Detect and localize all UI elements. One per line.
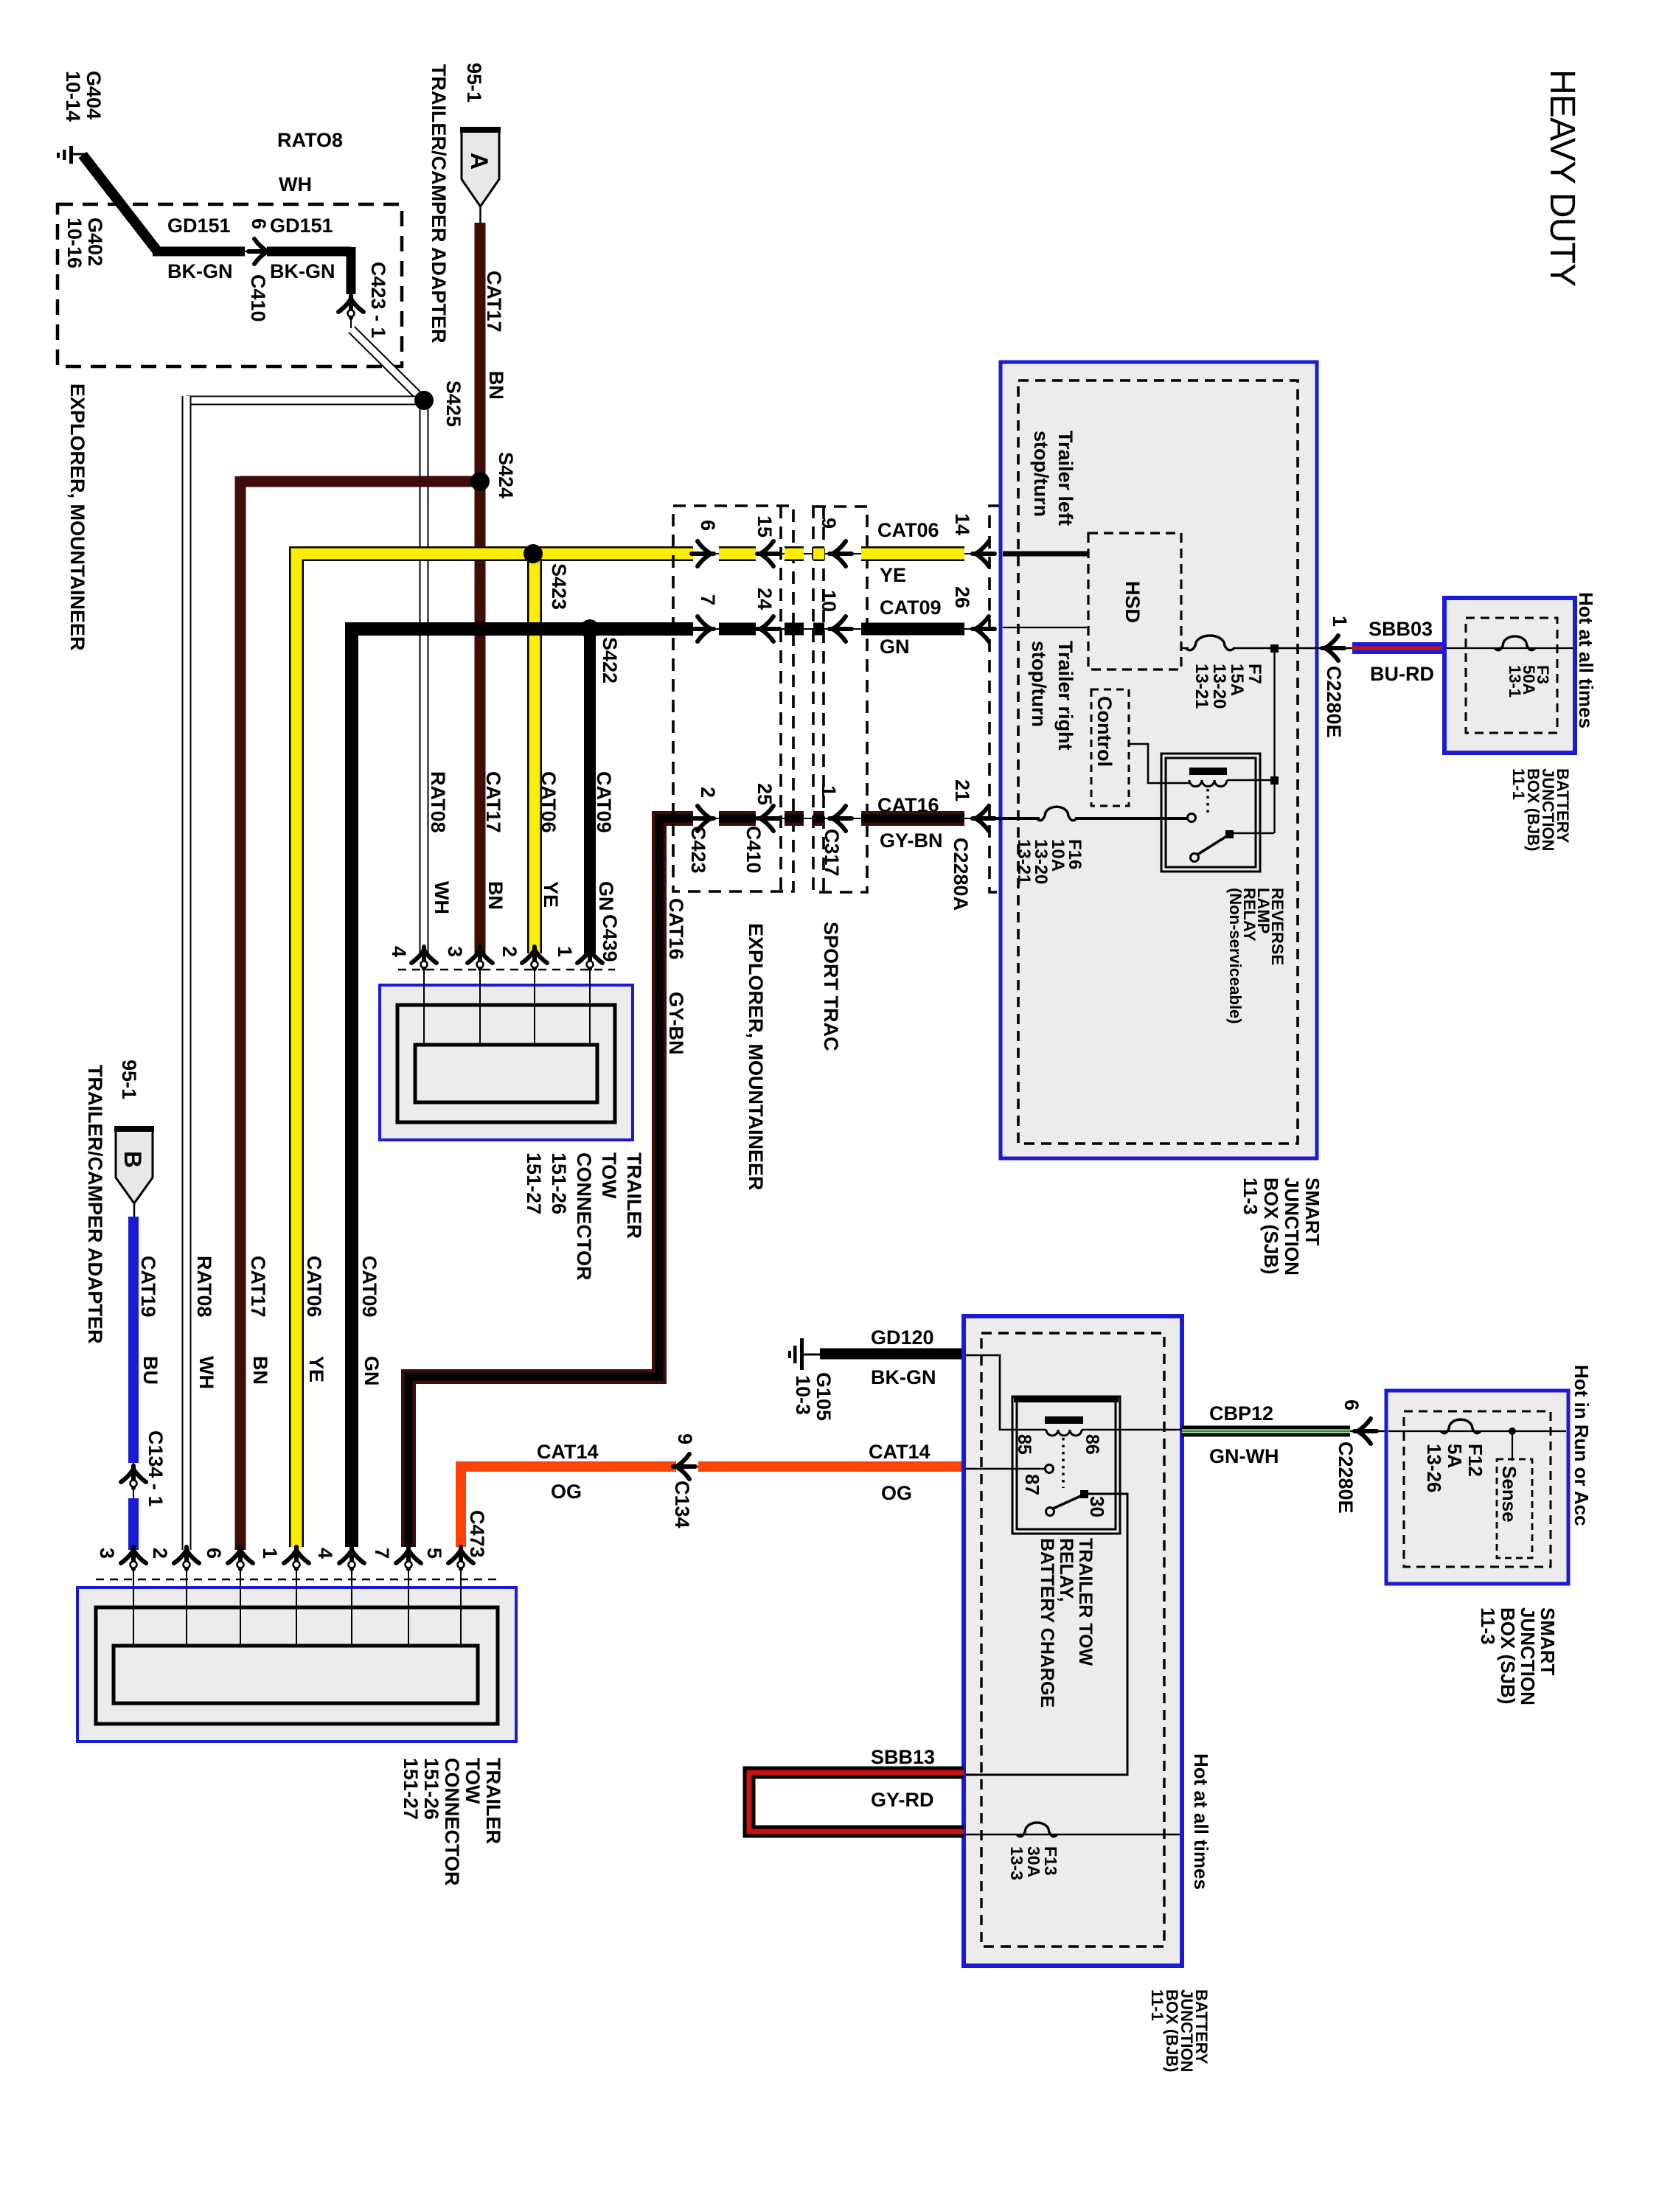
- wire through BJB top: [1447, 647, 1573, 649]
- wire GD120 BK-GN: [820, 1349, 964, 1360]
- relay lower contact: [1191, 854, 1199, 862]
- svg-text:RAT08: RAT08: [193, 1256, 215, 1318]
- label F3 50A 13-1: [1506, 665, 1552, 698]
- CAT09 GN row dash 1103: [813, 623, 824, 636]
- wire trailer right stop/turn inside SJB: [1003, 627, 1088, 628]
- trailer tow connector box (bottom): [77, 1587, 516, 1742]
- svg-text:GY-RD: GY-RD: [871, 1789, 934, 1811]
- svg-text:CONNECTOR: CONNECTOR: [573, 1152, 595, 1281]
- CAT09 GN row arrow into C317: [829, 616, 852, 641]
- svg-text:7: 7: [697, 594, 719, 605]
- svg-text:WH: WH: [431, 881, 453, 914]
- connector A pentagon (trailer/camper adapter): [460, 127, 501, 206]
- bottom connector pin 3 terminal arrow: [121, 1547, 146, 1569]
- connector C134 inline arrow on CAT14: [673, 1454, 698, 1479]
- svg-text:GN: GN: [880, 636, 910, 658]
- svg-text:GY-BN: GY-BN: [880, 829, 943, 852]
- bottom connector pin 5 terminal arrow: [448, 1547, 473, 1569]
- relay dotted actuator line: [1206, 789, 1208, 814]
- svg-text:13-20: 13-20: [1209, 664, 1229, 709]
- label G105 10-3: [792, 1372, 835, 1421]
- CAT09 GN row arrow into C2280A: [973, 616, 995, 641]
- svg-text:CAT09: CAT09: [593, 771, 615, 833]
- svg-text:2: 2: [498, 946, 521, 957]
- svg-text:10-14: 10-14: [62, 71, 84, 122]
- CAT16 GY-BN row dash 1103: [813, 811, 824, 826]
- label REVERSE LAMP RELAY (Non-serviceable): [1226, 888, 1287, 1024]
- CAT16 GY-BN row arrow into C410: [757, 806, 779, 831]
- CAT06 YE row arrow into C2280A: [973, 541, 995, 566]
- control line to relay coil: [1129, 744, 1189, 783]
- relay 30 lower contact: [1046, 1508, 1054, 1516]
- svg-text:10-3: 10-3: [792, 1375, 814, 1415]
- svg-text:JUNCTION: JUNCTION: [1281, 1178, 1303, 1276]
- svg-text:BK-GN: BK-GN: [270, 260, 335, 282]
- svg-text:YE: YE: [305, 1356, 327, 1382]
- svg-text:Trailer left: Trailer left: [1054, 431, 1077, 526]
- relay arm contact square: [1225, 830, 1234, 838]
- svg-text:CONNECTOR: CONNECTOR: [441, 1758, 463, 1886]
- CAT16 GY-BN row arrow into C317: [829, 806, 852, 831]
- label F7 15A 13-20 13-21: [1192, 664, 1265, 709]
- C439 pin 1 lead: [589, 968, 591, 1046]
- CAT06 YE row dash 1103: [813, 546, 824, 561]
- battery charge relay dotted actuator: [1062, 1438, 1064, 1488]
- svg-text:GD120: GD120: [871, 1326, 934, 1349]
- label TRAILER TOW RELAY, BATTERY CHARGE: [1037, 1538, 1096, 1708]
- svg-text:Control: Control: [1093, 696, 1116, 767]
- fuse F12: [1441, 1419, 1481, 1433]
- relay coil windings: [1189, 780, 1227, 787]
- svg-text:C410: C410: [247, 274, 269, 322]
- label TRAILER TOW CONNECTOR 151-26 151-27 (bottom): [400, 1758, 504, 1886]
- svg-text:1: 1: [554, 946, 576, 957]
- wire into F16: [988, 817, 1040, 820]
- battery junction box BJB (bottom): [964, 1316, 1182, 1966]
- svg-text:BK-GN: BK-GN: [871, 1366, 936, 1388]
- svg-text:stop/turn: stop/turn: [1030, 431, 1052, 517]
- svg-text:1: 1: [259, 1548, 281, 1559]
- svg-text:151-26: 151-26: [420, 1758, 442, 1820]
- svg-text:C2280A: C2280A: [950, 838, 972, 911]
- svg-text:10-16: 10-16: [63, 218, 86, 268]
- label Trailer right stop/turn: [1028, 641, 1077, 751]
- bottom connector pin 4 lead: [351, 1568, 352, 1647]
- svg-text:SBB13: SBB13: [871, 1746, 935, 1768]
- svg-text:EXPLORER, MOUNTAINEER: EXPLORER, MOUNTAINEER: [745, 923, 767, 1191]
- wire GD151 BK-GN vertical drop to C423-1: [347, 247, 356, 294]
- CAT09 GN row arrow into C410: [757, 616, 779, 641]
- svg-text:C134: C134: [671, 1481, 693, 1528]
- wire from F7 junction down to relay: [1273, 648, 1275, 833]
- CAT16 GY-BN row arrow into C2280A: [973, 806, 995, 831]
- svg-text:4: 4: [388, 946, 410, 957]
- svg-text:9: 9: [674, 1433, 696, 1444]
- C439 pin 2 terminal arrow: [522, 947, 547, 969]
- svg-text:21: 21: [951, 779, 973, 801]
- wire RATO8 WH diagonal from C423-1 to S425: [352, 330, 422, 399]
- svg-text:5A: 5A: [1444, 1444, 1466, 1468]
- lead from A to CAT17: [479, 206, 481, 224]
- svg-text:B: B: [119, 1151, 146, 1168]
- coil to CBP12 line: [1082, 1429, 1183, 1431]
- svg-text:CAT06: CAT06: [303, 1256, 325, 1318]
- svg-text:SBB03: SBB03: [1368, 618, 1433, 640]
- battery charge relay coil windings: [1046, 1430, 1082, 1436]
- label G404 10-14: [62, 71, 105, 122]
- svg-text:F12: F12: [1464, 1444, 1486, 1477]
- CAT09 GN row dash 975: [719, 623, 756, 636]
- dashed connector boundary C2280A: [990, 506, 1001, 892]
- svg-text:F7: F7: [1245, 664, 1265, 684]
- CAT09 GN row dash 1064: [785, 623, 804, 636]
- bottom connector pin 2 lead: [186, 1568, 187, 1647]
- svg-text:BN: BN: [249, 1356, 271, 1385]
- connector B pentagon (trailer/camper adapter): [114, 1126, 154, 1203]
- arrow C2280E pin 6: [1350, 1419, 1388, 1444]
- svg-text:6: 6: [697, 520, 719, 531]
- svg-text:BATTERY CHARGE: BATTERY CHARGE: [1037, 1538, 1057, 1708]
- svg-text:13-21: 13-21: [1192, 664, 1211, 709]
- fuse F7: [1186, 636, 1234, 650]
- relay coil bar: [1189, 768, 1227, 775]
- svg-text:TRAILER: TRAILER: [482, 1758, 504, 1844]
- relay coil to F7 junction line: [1227, 779, 1270, 781]
- svg-text:C2280E: C2280E: [1323, 666, 1345, 738]
- arrow C2280E pin 1: [1322, 636, 1344, 661]
- svg-text:95-1: 95-1: [463, 63, 485, 102]
- wire CAT17 BN vertical: [475, 223, 486, 953]
- svg-text:5: 5: [423, 1548, 445, 1559]
- label TRAILER TOW CONNECTOR 151-26 151-27 (mid): [523, 1152, 645, 1281]
- Sense dashed box: [1497, 1459, 1532, 1558]
- ground G404: [57, 146, 86, 164]
- bottom connector pin 2 terminal arrow: [174, 1547, 199, 1569]
- svg-text:CAT17: CAT17: [247, 1256, 269, 1318]
- svg-text:WH: WH: [279, 173, 312, 195]
- svg-text:HSD: HSD: [1121, 581, 1144, 623]
- svg-text:7: 7: [371, 1548, 393, 1559]
- svg-text:TRAILER: TRAILER: [623, 1152, 645, 1239]
- battery charge relay coil bar: [1045, 1416, 1083, 1424]
- dashed box EXPLORER MOUNTAINEER ground splice: [58, 204, 402, 366]
- CAT09 GN row dash 1168: [861, 623, 964, 636]
- wire CAT09 GN branch from S422 down to C439 pin 1: [584, 629, 596, 953]
- wire RATO8 WH vertical left down to trailer tow connector: [182, 396, 192, 1550]
- bottom connector pin 1 terminal arrow: [284, 1547, 309, 1569]
- wire CAT17 BN horizontal from S424 to left corner: [240, 476, 480, 487]
- junction S425: [414, 391, 434, 410]
- svg-text:13-26: 13-26: [1423, 1444, 1445, 1493]
- label BATTERY JUNCTION BOX (BJB) 11-1 (top): [1509, 768, 1572, 851]
- SBB13 line inside BJB to F13: [966, 1834, 1180, 1835]
- svg-text:86: 86: [1082, 1434, 1102, 1455]
- svg-text:TRAILER/CAMPER ADAPTER: TRAILER/CAMPER ADAPTER: [428, 64, 450, 344]
- BJB top inner dashed box: [1466, 618, 1557, 733]
- trailer tow connector box (C439): [380, 985, 633, 1140]
- svg-text:13-21: 13-21: [1014, 839, 1034, 884]
- svg-text:CAT09: CAT09: [358, 1256, 380, 1318]
- bottom connector pin 1 lead: [296, 1568, 297, 1647]
- svg-text:24: 24: [754, 588, 776, 610]
- svg-text:TOW: TOW: [462, 1758, 484, 1804]
- CAT09 GN row thin line through connectors: [693, 628, 985, 630]
- svg-text:CAT06: CAT06: [538, 771, 560, 833]
- battery charge relay arm: [1053, 1495, 1084, 1509]
- bottom connector pin 4 terminal arrow: [339, 1547, 364, 1569]
- junction S423: [524, 544, 543, 563]
- connector C423-1 terminal arrow: [338, 294, 364, 328]
- dashed connector box C317: [813, 507, 867, 892]
- relay switch arm: [1197, 835, 1229, 855]
- svg-text:1: 1: [818, 785, 840, 796]
- svg-text:CBP12: CBP12: [1209, 1402, 1273, 1425]
- battery junction box BJB (top): [1444, 598, 1575, 753]
- wire CBP12 GN-WH: [1182, 1426, 1350, 1437]
- svg-text:C2280E: C2280E: [1335, 1441, 1357, 1514]
- line to Sense box: [1512, 1431, 1513, 1461]
- svg-text:GN-WH: GN-WH: [1209, 1445, 1279, 1467]
- svg-text:GN: GN: [595, 881, 617, 911]
- battery charge relay box: [1012, 1396, 1120, 1534]
- svg-text:GN: GN: [361, 1356, 383, 1386]
- svg-text:WH: WH: [195, 1356, 218, 1389]
- CAT06 YE row arrow into C410: [757, 541, 779, 566]
- svg-text:C423 - 1: C423 - 1: [367, 262, 389, 338]
- wire CAT09 GN corner: down to connector / right to S422: [352, 629, 693, 1547]
- svg-text:4: 4: [314, 1548, 336, 1559]
- svg-text:2: 2: [149, 1548, 171, 1559]
- connector C410 inline arrow on GD151: [245, 239, 271, 264]
- svg-text:11-3: 11-3: [1477, 1607, 1499, 1645]
- svg-text:CAT16: CAT16: [665, 898, 687, 960]
- fuse F16: [1037, 807, 1077, 821]
- svg-text:C410: C410: [742, 826, 765, 874]
- Control dashed box: [1091, 689, 1129, 806]
- wire F16 to relay contact: [1075, 817, 1187, 820]
- svg-text:CAT16: CAT16: [877, 794, 939, 816]
- svg-text:TOW: TOW: [598, 1152, 620, 1199]
- svg-text:1: 1: [1329, 616, 1351, 627]
- wire GD151 BK-GN diagonal from G404: [83, 155, 157, 251]
- svg-text:BOX (SJB): BOX (SJB): [1497, 1607, 1519, 1704]
- svg-text:CAT14: CAT14: [869, 1441, 931, 1463]
- wire CAT06 YE branch from S423 down to C439 pin 2: [527, 559, 542, 953]
- svg-text:11-1: 11-1: [1148, 1989, 1166, 2021]
- CAT06 YE row dash 975: [719, 546, 756, 561]
- svg-text:CAT17: CAT17: [482, 771, 504, 833]
- svg-text:9: 9: [818, 518, 840, 529]
- svg-text:RELAY,: RELAY,: [1056, 1538, 1077, 1602]
- SJB inner dashed box: [1018, 380, 1298, 1144]
- fuse F3: [1495, 636, 1535, 650]
- svg-text:95-1: 95-1: [118, 1060, 140, 1099]
- wire CAT06 YE corner: down to connector / right to S423: [296, 554, 693, 1547]
- BJB bottom inner dashed box: [981, 1333, 1164, 1947]
- CAT06 YE row arrow into C423: [692, 541, 714, 566]
- svg-text:C439: C439: [599, 914, 621, 962]
- svg-text:(Non-serviceable): (Non-serviceable): [1226, 888, 1245, 1024]
- CAT16 GY-BN row dash 1168: [861, 811, 964, 826]
- bottom connector face dashed line: [96, 1579, 498, 1581]
- label SMART JUNCTION BOX (SJB) 11-3 (top): [1239, 1178, 1324, 1276]
- svg-text:151-27: 151-27: [523, 1152, 545, 1214]
- junction S424: [470, 472, 490, 491]
- svg-text:C134 - 1: C134 - 1: [145, 1430, 167, 1507]
- HSD dashed box: [1088, 533, 1181, 669]
- bottom connector pin 6 lead: [240, 1568, 241, 1647]
- svg-text:C317: C317: [821, 829, 843, 877]
- svg-text:151-26: 151-26: [548, 1152, 570, 1214]
- svg-text:6: 6: [203, 1548, 225, 1559]
- svg-text:14: 14: [951, 513, 973, 535]
- wire CAT19 BU lower segment: [128, 1498, 139, 1550]
- CAT16 GY-BN row dash 1064: [785, 811, 804, 826]
- CAT16 GY-BN row thin line through connectors: [693, 818, 985, 819]
- CAT06 YE row dash 1168: [861, 546, 964, 561]
- wire CAT17 BN vertical left down to trailer tow connector: [235, 476, 246, 1550]
- svg-text:BOX (SJB): BOX (SJB): [1260, 1178, 1282, 1274]
- svg-text:HEAVY DUTY: HEAVY DUTY: [1543, 69, 1582, 286]
- CAT16 GY-BN row dash 975: [719, 811, 756, 826]
- label G402 10-16: [63, 218, 106, 268]
- label F13 30A 13-3: [1007, 1846, 1060, 1880]
- C439 pin 3 lead: [479, 968, 481, 1046]
- smart junction box SJB (bottom) outline: [1386, 1391, 1568, 1584]
- svg-text:C473: C473: [466, 1510, 488, 1558]
- svg-text:CAT09: CAT09: [880, 597, 942, 619]
- svg-text:10: 10: [818, 590, 840, 612]
- svg-text:stop/turn: stop/turn: [1028, 641, 1050, 727]
- relay 30 to SBB13 line: [966, 1494, 1127, 1775]
- GD120 line inside BJB to coil: [966, 1355, 1046, 1430]
- lead from B to CAT19: [133, 1203, 136, 1218]
- C439 pin 3 terminal arrow: [467, 947, 493, 969]
- CAT14 line to 87 contact: [966, 1468, 1046, 1470]
- svg-text:BN: BN: [484, 881, 507, 910]
- svg-text:CAT06: CAT06: [877, 519, 939, 541]
- svg-text:3: 3: [444, 946, 466, 957]
- svg-text:6: 6: [1340, 1399, 1363, 1411]
- label Trailer left stop/turn: [1030, 431, 1077, 526]
- label SMART JUNCTION BOX (SJB) 11-3 (bottom): [1477, 1607, 1559, 1705]
- svg-text:15A: 15A: [1227, 664, 1247, 696]
- svg-text:S425: S425: [442, 380, 465, 427]
- svg-text:OG: OG: [881, 1482, 912, 1504]
- wire CAT19 BU upper segment: [128, 1217, 139, 1463]
- svg-text:OG: OG: [551, 1481, 582, 1503]
- svg-text:Sense: Sense: [1498, 1466, 1520, 1523]
- SJB bottom inner dashed box: [1404, 1411, 1551, 1567]
- svg-text:GD151: GD151: [270, 215, 333, 237]
- wire SBB03 BU-RD: [1352, 642, 1444, 654]
- C439 pin 4 terminal arrow: [411, 947, 437, 969]
- svg-text:RATO8: RATO8: [277, 129, 343, 151]
- label F16 10A 13-20 13-21: [1014, 839, 1085, 884]
- svg-text:Trailer right: Trailer right: [1054, 641, 1077, 751]
- svg-text:SPORT TRAC: SPORT TRAC: [820, 922, 842, 1051]
- CAT06 YE row dash 1064: [785, 546, 804, 561]
- svg-text:TRAILER TOW: TRAILER TOW: [1075, 1538, 1096, 1666]
- svg-text:BN: BN: [485, 371, 507, 400]
- wire RATO8 WH vertical from S425 down to C439 pin 4: [420, 400, 429, 953]
- junction S422: [580, 619, 599, 639]
- svg-text:13-3: 13-3: [1007, 1846, 1026, 1880]
- svg-text:GY-BN: GY-BN: [665, 992, 687, 1055]
- label F12 5A 13-26: [1423, 1444, 1486, 1493]
- svg-text:26: 26: [951, 586, 973, 608]
- svg-text:S423: S423: [548, 563, 570, 610]
- ground G105: [788, 1338, 821, 1370]
- wire SBB03 lead: [1337, 647, 1355, 649]
- svg-text:TRAILER/CAMPER ADAPTER: TRAILER/CAMPER ADAPTER: [84, 1065, 106, 1344]
- C439 connector face dashed line: [398, 969, 615, 971]
- svg-text:CAT19: CAT19: [137, 1256, 159, 1318]
- svg-text:JUNCTION: JUNCTION: [1517, 1607, 1539, 1705]
- CAT06 YE row arrow into C317: [829, 541, 852, 566]
- wire RATO8 WH horizontal S425 to left corner: [187, 396, 424, 406]
- relay upper contact: [1188, 814, 1196, 822]
- reverse lamp relay box: [1161, 754, 1260, 872]
- svg-text:YE: YE: [880, 564, 906, 586]
- wire GD151 BK-GN horizontal right segment: [267, 247, 351, 257]
- wire from F7 to C2280E: [1233, 647, 1327, 649]
- svg-text:BU-RD: BU-RD: [1370, 663, 1434, 685]
- svg-text:85: 85: [1014, 1434, 1034, 1455]
- C439 pin 1 terminal arrow: [577, 947, 602, 969]
- junction at relay coil: [1270, 776, 1279, 785]
- wire through bottom SJB: [1388, 1430, 1566, 1432]
- svg-text:Hot at all times: Hot at all times: [1575, 592, 1597, 728]
- wire CAT14 OG left segment corner: [461, 1467, 676, 1547]
- svg-text:6: 6: [248, 218, 270, 229]
- svg-text:EXPLORER, MOUNTAINEER: EXPLORER, MOUNTAINEER: [66, 383, 88, 651]
- bottom connector pin 6 terminal arrow: [228, 1547, 253, 1569]
- svg-text:Hot at all times: Hot at all times: [1190, 1753, 1212, 1890]
- svg-text:Hot in Run or Acc: Hot in Run or Acc: [1571, 1365, 1593, 1526]
- bottom connector pin 7 lead: [408, 1568, 409, 1647]
- svg-text:3: 3: [96, 1548, 118, 1559]
- bottom connector pin 3 lead: [133, 1568, 134, 1647]
- label BATTERY JUNCTION BOX (BJB) 11-1 (bottom): [1148, 1989, 1211, 2072]
- wire CAT16 GY-BN path: SJB row down and left to trailer tow connector pin 7: [408, 818, 693, 1547]
- svg-text:15: 15: [754, 515, 776, 538]
- smart junction box SJB outline: [1001, 362, 1317, 1158]
- bottom connector pin 5 lead: [460, 1568, 462, 1647]
- wire trailer left stop/turn inside SJB: [1003, 552, 1088, 557]
- svg-text:A: A: [466, 153, 493, 170]
- svg-text:151-27: 151-27: [400, 1758, 422, 1820]
- wire CAT14 OG right segment: [698, 1461, 964, 1472]
- svg-text:11-3: 11-3: [1239, 1178, 1262, 1215]
- CAT09 GN row arrow into C423: [692, 616, 714, 641]
- battery charge relay arm square: [1080, 1490, 1088, 1498]
- wire SBB13 GY-RD loop: [749, 1773, 964, 1832]
- svg-text:G402: G402: [84, 218, 106, 266]
- C439 pin 2 lead: [534, 968, 535, 1046]
- svg-text:SMART: SMART: [1537, 1607, 1559, 1676]
- relay arm to junction line: [1229, 832, 1274, 834]
- CAT06 YE row thin line through connectors: [693, 553, 985, 554]
- wire GD151 BK-GN horizontal left segment: [153, 247, 245, 257]
- svg-text:BK-GN: BK-GN: [167, 260, 233, 282]
- fuse F13: [1017, 1823, 1057, 1837]
- svg-text:CAT14: CAT14: [537, 1441, 599, 1463]
- svg-text:S424: S424: [495, 452, 517, 498]
- CAT16 GY-BN row arrow into C423: [692, 806, 714, 831]
- junction at F7 output: [1270, 644, 1279, 653]
- svg-text:S422: S422: [599, 637, 621, 684]
